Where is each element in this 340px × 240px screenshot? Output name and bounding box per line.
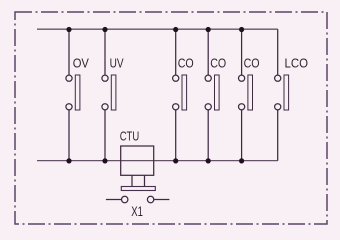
contact bar	[111, 75, 116, 110]
wire: LCO lower	[277, 110, 279, 161]
contact terminal circle	[102, 104, 108, 110]
contact bar	[215, 75, 220, 110]
contact terminal circle	[66, 104, 72, 110]
contact OV	[66, 29, 80, 161]
contact bar	[284, 75, 289, 110]
wire: X1 left lead	[106, 199, 122, 201]
node: bottom bus / CO2	[206, 158, 211, 163]
wire: OV lower	[68, 110, 70, 161]
contact terminal circle	[205, 104, 211, 110]
contact terminal circle	[102, 75, 108, 81]
node: top bus / CO2	[206, 27, 211, 32]
wire: CO3 upper	[241, 29, 243, 75]
contact terminal circle	[173, 104, 179, 110]
contact terminal circle	[275, 104, 281, 110]
node: top bus / CO1	[173, 27, 178, 32]
contact terminal circle	[239, 75, 245, 81]
svg-text:CTU: CTU	[120, 128, 140, 143]
contact CO3	[239, 29, 253, 161]
contact terminal circle	[239, 104, 245, 110]
wire: CTU stem left	[131, 175, 133, 186]
contact CO2	[205, 29, 219, 161]
contact terminal circle	[205, 75, 211, 81]
contact terminal circle	[173, 75, 179, 81]
wire: CTU stem right	[144, 175, 146, 186]
node: bottom bus / CO3	[239, 158, 244, 163]
wire: CO2 upper	[207, 29, 209, 75]
contact terminal circle	[275, 75, 281, 81]
wire: LCO upper	[277, 29, 279, 75]
contact bar	[248, 75, 253, 110]
wire: CO1 upper	[175, 29, 177, 75]
node: bottom bus / UV	[102, 158, 107, 163]
contact bar	[182, 75, 187, 110]
connector X1 bar	[121, 187, 155, 191]
relay CTU box	[121, 146, 154, 175]
contact LCO	[275, 29, 289, 161]
svg-text:UV: UV	[110, 56, 124, 71]
wire: OV upper	[68, 29, 70, 75]
node: bottom bus / OV	[66, 158, 71, 163]
svg-text:OV: OV	[73, 56, 89, 71]
contact bar	[75, 75, 80, 110]
wire: X1 right lead	[154, 199, 170, 201]
wire: CO1 lower	[175, 110, 177, 161]
wire: CO3 lower	[241, 110, 243, 161]
svg-text:CO: CO	[178, 56, 194, 71]
svg-text:CO: CO	[210, 56, 226, 71]
connector X1 terminal circle left	[122, 196, 128, 202]
contact CO1	[173, 29, 187, 161]
contact UV	[102, 29, 116, 161]
svg-text:LCO: LCO	[285, 56, 309, 71]
wire: bottom bus	[37, 160, 278, 162]
svg-text:X1: X1	[131, 203, 143, 219]
node: top bus / CO3	[239, 27, 244, 32]
wire: CO2 lower	[207, 110, 209, 161]
node: bottom bus / CO1	[173, 158, 178, 163]
node: top bus / OV	[66, 27, 71, 32]
wire: top bus	[37, 28, 278, 30]
wire: UV upper	[104, 29, 106, 75]
contact terminal circle	[66, 75, 72, 81]
wire: UV lower	[104, 110, 106, 161]
connector X1 terminal circle right	[147, 196, 153, 202]
node: top bus / UV	[102, 27, 107, 32]
junction dots top bus	[66, 27, 244, 164]
svg-text:CO: CO	[244, 56, 260, 71]
